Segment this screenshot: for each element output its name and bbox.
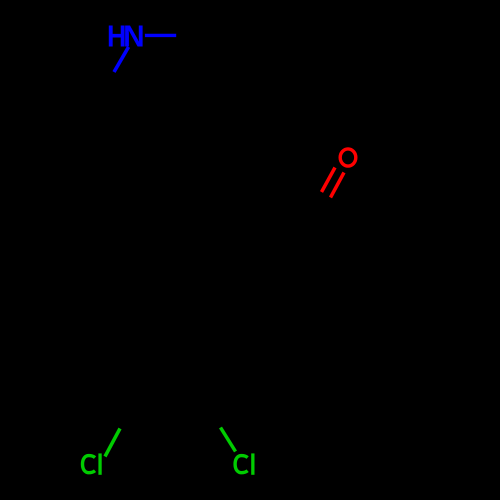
- atom label Cl (left chlorine): l bar: [98, 453, 101, 474]
- atom label Cl (left chlorine): C glyph: [83, 456, 96, 473]
- double bond C=O line 1 (red half, upper-left): [322, 168, 336, 193]
- bond N-CH3 (blue half): [145, 34, 176, 37]
- bond C-Cl right (green half): [221, 428, 236, 452]
- atom label Cl (right chlorine): C glyph: [235, 456, 248, 473]
- double bond C=O line 2 (red half, lower-right): [331, 173, 345, 198]
- bond C-Cl left (green half): [105, 429, 120, 457]
- atom label Cl (right chlorine): l bar: [251, 453, 254, 474]
- bond N-CH2 (blue half): [114, 47, 129, 72]
- atom label O (carbonyl oxygen): [340, 149, 356, 166]
